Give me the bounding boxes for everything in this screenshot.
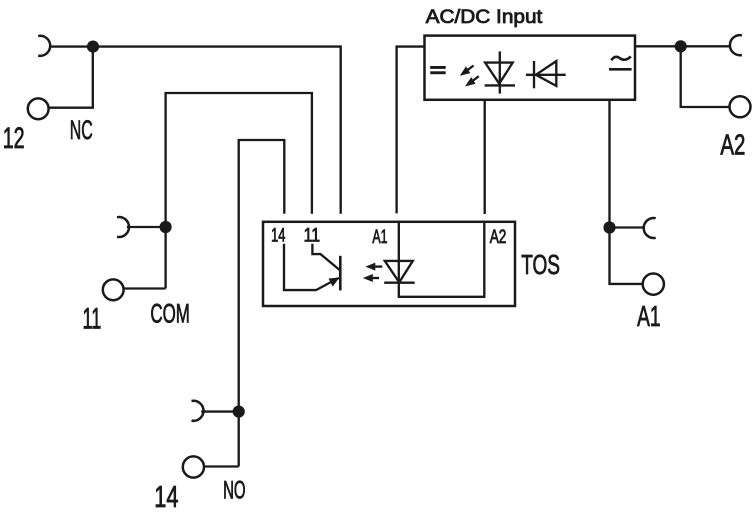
terminal 14 circle — [183, 456, 204, 477]
node NO junction — [233, 406, 245, 418]
wire A1 junction down to terminal circle — [610, 228, 643, 284]
svg-text:A1: A1 — [372, 227, 387, 248]
node COM junction — [160, 221, 172, 233]
wire A1 junction to arc — [610, 226, 646, 228]
wire box bottom to TOS A2 pin — [484, 100, 486, 214]
wire NO vertical and over to TOS pin 14 — [239, 140, 285, 467]
phototransistor emitter lead from pin 14 — [284, 244, 339, 290]
terminal A2 socket arc — [730, 35, 742, 55]
svg-text:A2: A2 — [720, 130, 745, 162]
wire COM arc to junction — [127, 226, 166, 228]
wire A2 junction down to terminal circle — [681, 46, 730, 107]
wire NO junction down to terminal 14 circle — [204, 465, 239, 467]
terminal A1 circle — [643, 274, 664, 295]
svg-text:14: 14 — [271, 226, 286, 247]
svg-text:A1: A1 — [637, 301, 661, 333]
phototransistor collector lead from pin 11 — [312, 244, 339, 270]
reverse diode (left) in input box — [526, 74, 566, 76]
svg-text:14: 14 — [154, 479, 178, 512]
svg-text:A2: A2 — [490, 227, 507, 248]
svg-text:11: 11 — [304, 226, 321, 247]
wire NC top horizontal then down toward TOS — [49, 47, 341, 214]
terminal 12 circle — [28, 98, 49, 119]
svg-text:NO: NO — [223, 477, 246, 505]
svg-text:12: 12 — [3, 122, 25, 155]
wire box right to A2 junction and arc — [635, 45, 731, 47]
LED light arrow 2 in input box — [471, 76, 478, 82]
svg-text:TOS: TOS — [521, 249, 560, 280]
node A1 junction — [603, 221, 615, 233]
TOS LED diode (down) with A1/A2 leads — [399, 222, 485, 297]
phototransistor base bar — [339, 256, 342, 291]
svg-text:NC: NC — [70, 115, 93, 145]
phototransistor emitter arrowhead — [329, 278, 340, 287]
optocoupler light arrow 2 — [371, 277, 379, 279]
TOS output box — [263, 222, 515, 306]
optocoupler light arrow 1 — [374, 265, 382, 267]
terminal A1 socket arc — [644, 218, 656, 238]
LED diode (down) in input box — [499, 51, 501, 93]
wire COM vertical and over to TOS pin 11 — [166, 93, 312, 289]
wire from NC junction down-left to terminal 12 circle — [49, 47, 93, 108]
node NC junction — [87, 41, 99, 53]
svg-text:AC/DC Input: AC/DC Input — [426, 6, 543, 28]
terminal 11 circle — [103, 279, 124, 300]
terminal 14 NO socket arc — [192, 401, 204, 421]
terminal 11 COM socket arc — [117, 217, 129, 237]
DC equals symbol — [430, 66, 446, 69]
AC tilde symbol — [611, 56, 631, 60]
wire box bottom to A1 junction — [608, 100, 610, 228]
AC/DC input box — [425, 36, 636, 100]
terminal A2 circle — [730, 96, 751, 117]
svg-text:11: 11 — [83, 303, 102, 336]
node A2 junction — [675, 40, 687, 52]
wire COM junction down to terminal 11 circle — [124, 287, 166, 289]
wire A1 feed from box left down to TOS A1 — [397, 47, 425, 214]
wire NO arc to junction — [201, 410, 239, 412]
terminal 12 socket arc — [38, 36, 50, 56]
svg-text:COM: COM — [150, 299, 190, 329]
LED light arrow 1 in input box — [466, 66, 473, 72]
